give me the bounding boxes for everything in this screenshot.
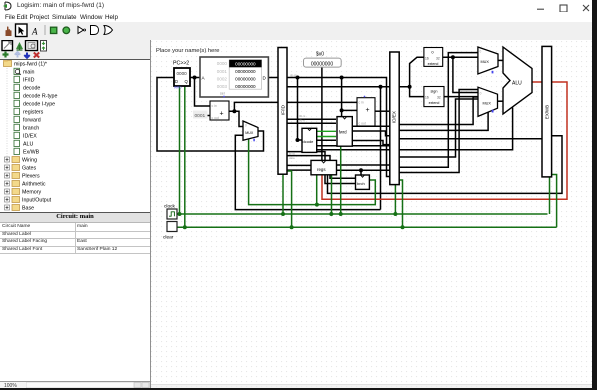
svg-text:IR-rs: IR-rs: [299, 114, 306, 118]
svg-text:Plexers: Plexers: [22, 174, 40, 180]
wire: ID/EX operand riser to MUX M2 upper: [399, 97, 481, 125]
wire: instruction field down to decode unit: [298, 78, 303, 141]
wire: branch target elbow down ID/EX left side: [380, 87, 382, 210]
adder A1: [210, 101, 229, 120]
svg-text:MUX: MUX: [245, 131, 254, 135]
clear input pin: [163, 222, 177, 241]
svg-text:Place your name(s) here: Place your name(s) here: [156, 48, 219, 54]
svg-text:0003: 0003: [217, 84, 228, 89]
svg-text:Input/Output: Input/Output: [22, 198, 52, 204]
wire: adder output to IF/ID and MUX M1: [229, 102, 278, 126]
multiplexer M1 next-PC: [243, 121, 258, 141]
wire: IF/ID clear feed (green): [285, 171, 291, 227]
wire: branch target line into MUX M1 second input: [235, 135, 380, 209]
multiplexer M2 operand A: [478, 47, 498, 74]
svg-text:32: 32: [436, 57, 440, 61]
wire: decode control to ID/EX: [317, 145, 390, 147]
multiplexer M3 operand B: [478, 87, 498, 116]
wire: PC+1 through IF/ID to branch adder: [287, 101, 357, 103]
constant 0001: [193, 111, 208, 119]
wire: IF/ID instruction bus along ID/EX left side: [287, 78, 390, 177]
svg-text:IF/ID: IF/ID: [281, 104, 286, 115]
svg-text:regs: regs: [317, 167, 326, 172]
svg-text:00000000: 00000000: [235, 84, 256, 89]
wire: zero extend output to MUX M2: [443, 56, 481, 58]
svg-text:16: 16: [425, 96, 429, 100]
pipeline register EX/WB: [542, 46, 552, 177]
wire: constant to adder: [208, 115, 211, 117]
registers unit: [311, 160, 337, 174]
wire: PC feedback loop from mux output to PC D input: [157, 78, 264, 152]
wire: sign extend output to MUX M3: [444, 96, 478, 98]
wire: decode ALU-op line to ALU select: [317, 108, 513, 150]
svg-text:00000000: 00000000: [235, 77, 256, 82]
svg-text:sel: sel: [220, 92, 225, 96]
wire: read value down to branch unit: [360, 170, 362, 175]
wire: PC clock feed (green): [179, 86, 181, 214]
svg-text:32: 32: [437, 96, 441, 100]
svg-text:$x0: $x0: [316, 52, 324, 58]
svg-text:decode: decode: [23, 86, 40, 92]
svg-text:Arithmetic: Arithmetic: [22, 182, 46, 188]
svg-text:decode I-type: decode I-type: [23, 102, 55, 108]
svg-text:dcode: dcode: [303, 139, 315, 144]
wire: regs green feed a: [316, 175, 318, 205]
wire: ID/EX value riser to MUX M3 input: [399, 99, 478, 157]
main toolbar: [0, 22, 593, 41]
branch unit: [356, 175, 370, 189]
project tree: [0, 60, 150, 212]
wire: branch taken line to MUX M1 select (green): [249, 139, 376, 205]
wire: branch adder output to ID/EX: [375, 110, 389, 112]
wire: EX/WB clear feed (green): [552, 175, 557, 228]
svg-text:extend: extend: [428, 62, 439, 66]
svg-text:0001: 0001: [217, 69, 228, 74]
wire: decode to forward control a (green): [317, 130, 336, 132]
wire: IF/ID rt field to forward unit: [287, 122, 336, 124]
svg-text:0: 0: [480, 50, 482, 54]
node: extend fanout junction: [408, 85, 412, 89]
node: branch compare junction: [359, 168, 363, 172]
svg-text:c out: c out: [212, 116, 219, 120]
node: branch target junction: [379, 85, 383, 89]
left explorer toolbars: [0, 40, 150, 60]
wire: forward unit clock feed (green): [340, 146, 342, 214]
svg-text:ID/EX: ID/EX: [392, 111, 397, 123]
wire: ID/EX value riser to MUX M3 upper input: [399, 90, 478, 173]
wire: probe tap down to regs: [321, 67, 323, 161]
svg-text:extend: extend: [429, 101, 440, 105]
pipeline register ID/EX: [390, 52, 399, 185]
svg-text:IR-IS: IR-IS: [290, 74, 297, 78]
svg-text:MUX: MUX: [481, 60, 490, 64]
node: green junctions on clock and clear rails: [178, 203, 405, 230]
wire: clock distribution line (green): [177, 213, 548, 215]
wire: ID/EX result bus into EX/WB: [399, 138, 542, 140]
node: instruction junction a: [296, 76, 300, 80]
wire: regs read value 2 to ID/EX: [337, 169, 391, 171]
svg-text:mips-fwrd (1)*: mips-fwrd (1)*: [14, 62, 47, 68]
svg-text:c in: c in: [212, 104, 217, 108]
wire: EX/WB clock feed (green): [549, 177, 551, 214]
menu bar: [0, 12, 597, 22]
wire: ROM data out to IF/ID input: [268, 77, 278, 79]
svg-text:00000000: 00000000: [235, 69, 256, 74]
svg-text:0001: 0001: [195, 113, 206, 119]
svg-text:00000000: 00000000: [311, 61, 333, 67]
wire: ALU result error feedback loop (red): [322, 82, 567, 199]
svg-text:Base: Base: [22, 206, 34, 212]
node: immediate junction: [340, 108, 344, 112]
ROM instruction memory: [200, 57, 268, 97]
svg-text:0: 0: [245, 124, 247, 128]
wire: IF/ID to branch unit staircase b: [287, 156, 356, 179]
zero extend unit: [424, 48, 443, 67]
svg-text:c out: c out: [359, 122, 366, 126]
probe $x0: [304, 52, 342, 68]
svg-text:clear: clear: [163, 235, 174, 241]
wire: forward unit outputs to ID/EX: [352, 126, 390, 144]
wire: zero-extend tap down to MUX M3: [453, 57, 478, 92]
wire: PC clear feed (green): [184, 86, 186, 227]
register PC: [173, 61, 190, 90]
node: adder output junction: [232, 109, 236, 113]
svg-text:IR-rt: IR-rt: [299, 119, 305, 123]
node: extend tap junction: [451, 55, 455, 59]
svg-text:WRD: WRD: [174, 86, 182, 90]
wire: regs clock feed (green): [331, 175, 333, 214]
svg-text:branch: branch: [23, 126, 39, 132]
svg-text:0002: 0002: [217, 77, 228, 82]
sign extend unit: [424, 87, 444, 107]
svg-text:ALU: ALU: [512, 81, 522, 87]
svg-text:0: 0: [480, 92, 482, 96]
svg-text:sign: sign: [431, 90, 438, 94]
wire: EX/WB writeback loop to regs: [328, 136, 563, 194]
decode unit: [302, 128, 317, 152]
window borders: [592, 0, 597, 390]
wire: ID/EX control to MUX M3 select: [399, 112, 488, 130]
wire: decode control to forward unit (black): [317, 139, 336, 141]
wire: immediate field to extenders: [287, 57, 424, 96]
op-amp style ALU: [503, 47, 532, 114]
wire: PC Q to ROM address A: [190, 77, 200, 79]
wire: decode to forward control b (green): [317, 136, 336, 138]
row: mips-fwrd root folder: [4, 61, 47, 68]
node: PC output junction: [193, 76, 197, 80]
wire: MUX M3 output to ALU B: [498, 100, 504, 102]
svg-text:registers: registers: [23, 110, 44, 116]
wire: ID/EX value riser to MUX M2 input: [399, 53, 481, 168]
svg-text:c in: c in: [359, 101, 364, 105]
svg-text:16: 16: [425, 57, 429, 61]
svg-text:decode R-type: decode R-type: [23, 94, 58, 100]
svg-text:Ex/WB: Ex/WB: [23, 150, 40, 156]
wire: ID/EX clear feed (green): [399, 180, 402, 227]
svg-text:00000000: 00000000: [235, 61, 256, 66]
svg-text:ALU: ALU: [23, 142, 33, 148]
svg-text:EX/WB: EX/WB: [545, 105, 550, 119]
wire: MUX M2 output to ALU A: [498, 59, 503, 61]
svg-text:forward: forward: [23, 118, 41, 124]
pipeline register IF/ID: [278, 48, 306, 175]
node: decode input junction: [296, 138, 300, 142]
svg-text:fwrd: fwrd: [339, 130, 348, 135]
node: instruction junction b: [340, 76, 344, 80]
clock input pin: [164, 204, 177, 220]
wire: instruction to forward unit top: [341, 78, 343, 117]
wire: IF/ID to branch unit staircase a: [287, 152, 356, 184]
svg-text:Memory: Memory: [22, 190, 41, 196]
svg-text:+: +: [366, 107, 370, 114]
wire: rs field to forward unit: [287, 118, 336, 120]
svg-text:data: data: [289, 156, 295, 160]
svg-text:MUX: MUX: [483, 102, 492, 106]
wire: immediate to branch adder: [342, 109, 357, 111]
svg-text:Wiring: Wiring: [22, 158, 37, 164]
svg-text:A: A: [31, 27, 38, 37]
svg-text:0000: 0000: [217, 61, 228, 66]
forward unit: [337, 117, 352, 147]
wire: IF/ID register numbers to regs: [287, 165, 311, 170]
wire: ID/EX clock feed (green): [394, 185, 396, 214]
canvas: [151, 40, 593, 389]
svg-text:IF/ID: IF/ID: [23, 78, 35, 84]
wire: PC value down to adder input: [195, 78, 211, 107]
svg-text:ID/EX: ID/EX: [23, 134, 37, 140]
title bar: [0, 0, 597, 12]
svg-text:brch: brch: [357, 181, 365, 186]
attribute area: [0, 212, 150, 213]
wire: clear distribution line (green): [177, 226, 557, 228]
wire: regs read value 1 to ID/EX: [337, 164, 391, 166]
wire: IF/ID clock feed (green): [282, 174, 284, 214]
svg-text:+: +: [220, 111, 224, 118]
svg-text:D: D: [175, 79, 178, 84]
svg-text:PC>>2: PC>>2: [173, 61, 189, 67]
adder A2 branch target: [357, 96, 375, 126]
svg-text:main: main: [23, 70, 35, 76]
svg-text:0000: 0000: [177, 71, 188, 76]
svg-text:Gates: Gates: [22, 166, 36, 172]
